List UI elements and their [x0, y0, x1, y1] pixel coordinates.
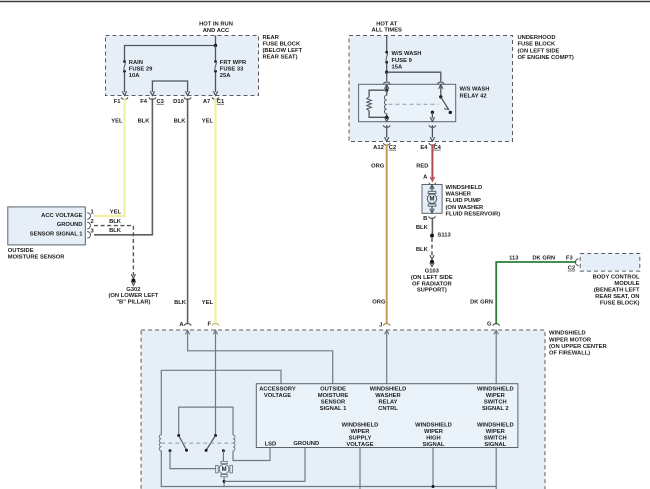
wire: rain fuse to F1 [124, 73, 126, 92]
switch linkage (dashed) [161, 442, 233, 444]
wire ORG: C2 to wiper motor J [386, 144, 388, 323]
svg-text:BLK: BLK [109, 228, 122, 234]
svg-text:RAIN: RAIN [129, 60, 143, 66]
svg-text:15A: 15A [392, 64, 403, 70]
wire: ground pin to motor [224, 448, 305, 482]
svg-text:FRT WPR: FRT WPR [220, 60, 247, 66]
svg-text:F4: F4 [140, 99, 148, 105]
svg-text:GROUND: GROUND [293, 441, 319, 447]
svg-text:WIPER: WIPER [486, 429, 506, 435]
wire BLK: C3 to sensor pin 3 [94, 98, 152, 235]
wire: fuse to relay coil pin [386, 72, 388, 81]
wire: fuse to relay switch pin [387, 72, 441, 81]
svg-text:C3: C3 [157, 99, 165, 105]
svg-text:WIPER: WIPER [350, 429, 370, 435]
svg-text:YEL: YEL [202, 300, 214, 306]
svg-text:BLK: BLK [416, 247, 429, 253]
svg-text:C4: C4 [434, 145, 442, 151]
windshield washer fluid pump box [422, 185, 442, 214]
svg-text:FUSE BLOCK: FUSE BLOCK [263, 42, 301, 48]
svg-text:W/S WASH: W/S WASH [392, 51, 422, 57]
wire: wiper switch signal pin [495, 448, 497, 489]
svg-text:SWITCH: SWITCH [484, 436, 507, 442]
svg-text:DK GRN: DK GRN [470, 299, 493, 305]
svg-text:SIGNAL 2: SIGNAL 2 [482, 406, 509, 412]
svg-text:C2: C2 [389, 145, 396, 151]
svg-text:YEL: YEL [202, 119, 214, 125]
svg-text:SENSOR SIGNAL 1: SENSOR SIGNAL 1 [30, 231, 83, 237]
svg-text:M: M [222, 467, 227, 473]
svg-text:OUTSIDE: OUTSIDE [320, 387, 346, 393]
svg-text:M: M [430, 197, 435, 203]
svg-text:WASHER: WASHER [446, 192, 472, 198]
svg-text:B: B [423, 216, 427, 222]
svg-text:A12: A12 [373, 145, 384, 151]
ground G103 [430, 260, 434, 264]
relay coil winding [384, 95, 386, 113]
relay coil junction top [385, 89, 388, 92]
svg-text:BLK: BLK [138, 119, 151, 125]
wire: relay coil out to A12/C2 [386, 125, 388, 137]
svg-text:25A: 25A [220, 73, 231, 79]
svg-text:BLK: BLK [174, 300, 187, 306]
wire: wiper high signal pin to bus [432, 448, 434, 487]
relay coil output pin arrow [386, 116, 388, 119]
wire RED: C4 to washer pump A [431, 144, 433, 179]
svg-text:S113: S113 [438, 233, 452, 239]
connector G into wiper motor [494, 330, 498, 334]
relay box W/S WASH RELAY 42 [359, 84, 456, 121]
svg-text:ALL TIMES: ALL TIMES [371, 28, 402, 34]
wire: A to outside moisture sensor signal 1 pin [188, 331, 333, 384]
svg-text:HIGH: HIGH [426, 436, 441, 442]
svg-text:OF RADIATOR: OF RADIATOR [412, 281, 453, 287]
pump pin arrow top [431, 186, 433, 191]
fuse W/S WASH FUSE 9 15A [385, 51, 388, 54]
svg-text:ORG: ORG [371, 164, 385, 170]
svg-text:WINDSHIELD: WINDSHIELD [342, 423, 379, 429]
outside moisture sensor box [8, 207, 86, 245]
wire BLK dashed: S113 to G103 [431, 238, 433, 257]
wire: left rail to ground bus [161, 451, 496, 487]
svg-text:AND ACC: AND ACC [203, 28, 230, 34]
park switch bus [179, 407, 233, 435]
body control module (dashed box) [580, 254, 640, 272]
svg-text:BLK: BLK [174, 119, 187, 125]
svg-text:UNDERHOOD: UNDERHOOD [518, 35, 556, 41]
connector A into wiper motor [185, 330, 189, 334]
svg-text:CNTRL: CNTRL [378, 406, 398, 412]
svg-text:RELAY: RELAY [378, 400, 397, 406]
svg-text:WIPER MOTOR: WIPER MOTOR [549, 337, 592, 343]
sensor pin 2 connector [87, 222, 90, 229]
svg-text:OUTSIDE: OUTSIDE [8, 248, 34, 254]
svg-text:FLUID PUMP: FLUID PUMP [446, 198, 482, 204]
pump pin arrow bottom [431, 206, 433, 210]
svg-text:WIPER: WIPER [486, 393, 506, 399]
svg-text:(ON LEFT SIDE: (ON LEFT SIDE [518, 48, 560, 54]
wire DK GRN: circuit 113 to body control module [496, 262, 576, 325]
svg-text:SIGNAL: SIGNAL [423, 442, 445, 448]
park switch 2 [214, 434, 217, 437]
BCM connector [575, 259, 578, 266]
svg-text:HOT AT: HOT AT [376, 21, 397, 27]
wire: G to wiper switch signal 2 pin [495, 331, 497, 384]
svg-text:LSD: LSD [265, 441, 277, 447]
svg-text:ACC VOLTAGE: ACC VOLTAGE [41, 213, 82, 219]
wire BLK: D10 to wiper motor A [187, 98, 189, 323]
svg-text:FUSE 33: FUSE 33 [220, 67, 244, 73]
svg-text:SUPPORT): SUPPORT) [417, 288, 447, 294]
wire: switch2 contact to motor [222, 451, 224, 462]
svg-text:WINDSHIELD: WINDSHIELD [477, 387, 514, 393]
wire BLK: pump B to S113 [431, 218, 433, 235]
relay switch blade [441, 97, 449, 110]
right field coil [233, 435, 235, 451]
svg-text:J: J [379, 322, 382, 328]
svg-text:(BELOW LEFT: (BELOW LEFT [263, 48, 303, 54]
svg-text:BODY CONTROL: BODY CONTROL [593, 274, 640, 280]
svg-text:SIGNAL: SIGNAL [484, 442, 506, 448]
svg-text:REAR SEAT): REAR SEAT) [263, 55, 298, 61]
svg-text:C2: C2 [568, 266, 575, 272]
svg-text:OF FIREWALL): OF FIREWALL) [549, 351, 590, 357]
svg-text:G302: G302 [126, 287, 140, 293]
connector F into wiper motor [213, 330, 217, 334]
svg-text:SUPPLY: SUPPLY [349, 436, 372, 442]
svg-text:WASHER: WASHER [375, 393, 401, 399]
relay mechanical linkage (dashed) [389, 103, 439, 105]
svg-text:"B" PILLAR): "B" PILLAR) [116, 300, 150, 306]
wiper motor M symbol [221, 461, 227, 463]
svg-text:RED: RED [416, 164, 428, 170]
svg-text:REAR SEAT, ON: REAR SEAT, ON [595, 294, 639, 300]
sensor pin 3 connector [87, 232, 90, 239]
wiper motor internal connector box [256, 384, 518, 448]
svg-text:(ON UPPER CENTER: (ON UPPER CENTER [549, 344, 607, 350]
svg-text:F1: F1 [114, 99, 122, 105]
svg-text:E4: E4 [420, 145, 428, 151]
svg-text:VOLTAGE: VOLTAGE [346, 442, 373, 448]
svg-text:F: F [207, 322, 211, 328]
svg-text:2: 2 [91, 219, 94, 225]
svg-text:ACCESSORY: ACCESSORY [259, 387, 296, 393]
svg-text:D10: D10 [173, 99, 184, 105]
svg-text:(ON LEFT SIDE: (ON LEFT SIDE [411, 275, 453, 281]
relay resistor branch [369, 90, 387, 97]
svg-text:SWITCH: SWITCH [484, 400, 507, 406]
sensor pin 1 connector [87, 213, 90, 220]
svg-text:DK GRN: DK GRN [532, 255, 555, 261]
wire: frt wpr fuse to A7/C1 [215, 73, 217, 92]
left field coil [159, 435, 161, 451]
fuse FRT WPR FUSE 33 25A [215, 46, 217, 61]
svg-text:FUSE 29: FUSE 29 [129, 67, 153, 73]
wire: relay switch out to E4/C4 [431, 125, 433, 137]
svg-text:SENSOR: SENSOR [321, 400, 346, 406]
wire: accessory voltage feed to motor rail [161, 370, 281, 434]
wire: internal bus F4 to D10 [152, 81, 187, 92]
wire: hot feed to W/S WASH fuse [386, 36, 388, 51]
relay switch output contact [431, 111, 434, 114]
svg-text:W/S WASH: W/S WASH [460, 87, 490, 93]
svg-text:A7: A7 [203, 99, 210, 105]
svg-text:WINDSHIELD: WINDSHIELD [370, 387, 407, 393]
svg-text:C1: C1 [217, 99, 225, 105]
pump connector B [429, 216, 436, 218]
svg-text:WINDSHIELD: WINDSHIELD [415, 423, 452, 429]
svg-text:GROUND: GROUND [57, 222, 83, 228]
svg-text:BLK: BLK [416, 225, 429, 231]
junction [214, 44, 217, 47]
park switch 1 [177, 434, 180, 437]
svg-text:MODULE: MODULE [614, 281, 639, 287]
relay coil pin arrow (pin to fuse) [386, 86, 388, 91]
svg-text:F3: F3 [566, 255, 574, 261]
underhood fuse block (dashed box) [349, 36, 513, 142]
svg-text:HOT IN RUN: HOT IN RUN [199, 22, 233, 28]
relay switch common contact [440, 85, 442, 97]
fuse RAIN FUSE 29 10A [123, 60, 126, 63]
wire: J to washer relay cntrl pin [386, 331, 388, 384]
svg-text:113: 113 [509, 255, 519, 261]
svg-text:REAR: REAR [263, 35, 280, 41]
svg-text:FUSE BLOCK: FUSE BLOCK [518, 42, 556, 48]
svg-text:YEL: YEL [111, 119, 123, 125]
wire BLK: sensor pin2 (ground) to G302, dashed [94, 226, 133, 276]
wire: motor to ground bus [223, 477, 225, 487]
svg-text:WINDSHIELD: WINDSHIELD [446, 185, 483, 191]
svg-text:FUSE BLOCK): FUSE BLOCK) [600, 300, 640, 306]
svg-text:BLK: BLK [109, 219, 122, 225]
pump motor M1 symbol [428, 191, 436, 193]
svg-text:WIPER: WIPER [424, 429, 444, 435]
svg-text:(ON WASHER: (ON WASHER [446, 205, 484, 211]
splice S113 [430, 234, 434, 238]
svg-text:FLUID RESERVOIR): FLUID RESERVOIR) [446, 212, 501, 218]
svg-text:WINDSHIELD: WINDSHIELD [549, 331, 586, 337]
svg-text:MOISTURE: MOISTURE [318, 393, 349, 399]
svg-text:(ON LOWER LEFT: (ON LOWER LEFT [108, 293, 158, 299]
relay coil junction bottom [385, 116, 388, 119]
wire: switch1 contact to motor low brush [170, 451, 216, 469]
connector J into wiper motor [385, 330, 389, 334]
rear fuse block (dashed box) [106, 36, 259, 96]
svg-text:YEL: YEL [110, 210, 122, 216]
svg-text:SIGNAL 1: SIGNAL 1 [320, 406, 347, 412]
wire: hot feed into rear fuse block [125, 36, 216, 61]
top frame edge line [0, 1, 650, 3]
svg-text:G103: G103 [425, 269, 440, 275]
svg-text:VOLTAGE: VOLTAGE [264, 393, 291, 399]
svg-text:G: G [487, 322, 492, 328]
svg-text:FUSE 9: FUSE 9 [392, 58, 413, 64]
wire YEL: F1 to sensor pin 1 [94, 98, 125, 216]
wire: F to wiper switch 2 [215, 331, 217, 436]
wire: wiper supply voltage pin [359, 448, 361, 489]
svg-text:RELAY 42: RELAY 42 [460, 93, 487, 99]
windshield wiper motor (dashed box) [141, 330, 545, 489]
svg-text:WINDSHIELD: WINDSHIELD [477, 423, 514, 429]
wire: LSD to right coil [233, 448, 270, 461]
svg-text:OF ENGINE COMPT): OF ENGINE COMPT) [518, 55, 574, 61]
wire: fuse output junction [386, 64, 388, 73]
svg-text:MOISTURE SENSOR: MOISTURE SENSOR [8, 255, 66, 261]
ground G302 [131, 279, 135, 283]
svg-text:ORG: ORG [372, 299, 386, 305]
svg-text:(BENEATH LEFT: (BENEATH LEFT [594, 287, 640, 293]
svg-text:10A: 10A [129, 73, 140, 79]
wire YEL: A7/C1 to wiper motor F [214, 98, 216, 323]
